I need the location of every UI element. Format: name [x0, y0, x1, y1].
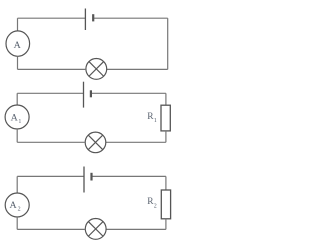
wire bottom-left segment (lamp to corner) — [17, 141, 85, 143]
svg-text:1: 1 — [18, 119, 21, 125]
svg-text:1: 1 — [154, 118, 157, 124]
cell short plate (negative) — [90, 173, 92, 181]
wire bottom-left segment (lamp to corner) — [18, 68, 86, 70]
cell long plate (positive) — [83, 167, 85, 193]
svg-text:2: 2 — [18, 207, 21, 213]
svg-text:A: A — [10, 200, 18, 211]
lamp (circle with cross) — [86, 59, 107, 80]
cell long plate (positive) — [83, 82, 85, 108]
wire top-left segment (corner to cell long plate) — [17, 92, 84, 94]
ammeter A1 (circle) — [5, 105, 29, 129]
resistor R2 (box) — [161, 190, 170, 219]
cell long plate (positive) — [84, 9, 86, 31]
wire right lower stub (resistor R1 to corner) — [165, 131, 167, 142]
wire right upper stub (corner to resistor R1) — [165, 93, 167, 105]
wire bottom-left segment (lamp to corner) — [17, 228, 85, 230]
wire left upper stub (corner to ammeter A2) — [16, 176, 18, 193]
ammeter A2 (circle) — [5, 193, 29, 217]
svg-text:2: 2 — [154, 203, 157, 209]
wire left lower stub (ammeter A2 to corner) — [16, 217, 18, 229]
wire left lower stub (ammeter to corner) — [17, 56, 19, 69]
lamp (circle with cross) — [85, 132, 106, 153]
wire right upper stub (corner to resistor R2) — [165, 176, 167, 190]
wire right lower stub (resistor R2 to corner) — [165, 219, 167, 230]
wire bottom-right segment (corner to lamp) — [106, 228, 166, 230]
cell short plate (negative) — [90, 90, 92, 97]
wire top-left segment (corner to cell long plate) — [17, 175, 84, 177]
svg-text:A: A — [11, 112, 19, 123]
wire top-right segment (cell short plate to corner) — [91, 92, 166, 94]
lamp (circle with cross) — [85, 219, 106, 240]
wire left lower stub (ammeter A1 to corner) — [16, 129, 18, 142]
wire left upper stub (corner to ammeter) — [17, 18, 19, 31]
wire left upper stub (corner to ammeter A1) — [16, 93, 18, 105]
wire top-right segment (cell short plate to corner) — [92, 175, 166, 177]
wire bottom-right segment (corner to lamp) — [106, 141, 166, 143]
wire top-right segment (cell short plate to top-right corner) — [93, 17, 168, 19]
wire top-left segment (corner to cell long plate) — [18, 17, 86, 19]
resistor R1 (box) — [161, 105, 170, 131]
ammeter A (circle) — [6, 31, 30, 56]
svg-text:A: A — [14, 40, 22, 51]
cell short plate (negative) — [92, 14, 94, 21]
wire bottom-right segment (corner to lamp) — [107, 68, 168, 70]
wire right side — [167, 18, 169, 69]
